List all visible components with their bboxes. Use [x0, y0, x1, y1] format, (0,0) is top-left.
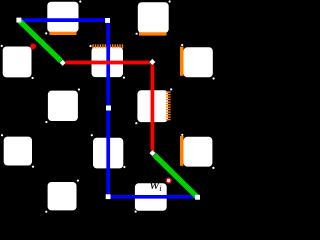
port dot S1 BL — [45, 32, 47, 34]
port dot S12 BL — [45, 211, 47, 213]
port dot S11 BR — [212, 167, 214, 169]
port dot S2 TR — [169, 0, 171, 2]
blue wire path: node A top-left, right, down, right to node E — [19, 20, 198, 197]
port dot S9 TL — [91, 134, 93, 136]
red wire path: diamond D1 to diamond D2 to diamond D3 — [63, 63, 152, 153]
port dot S7 BL — [135, 122, 137, 124]
square S7 (row3, col3) — [137, 90, 168, 122]
square S12 (bottom, col1) — [48, 182, 77, 210]
diamond D3 — [149, 150, 156, 157]
orange bar left of S11 — [180, 136, 184, 166]
green wire 2: diamond D3 to node E — [153, 154, 197, 197]
node E (square, blue/green end) — [195, 195, 200, 200]
port dot S11 TL — [181, 134, 183, 136]
green wire 1: node A to diamond D1 — [20, 21, 63, 63]
port dot S7 TR — [170, 88, 172, 90]
diamond D1 — [59, 59, 66, 66]
port dot S3 TL — [181, 44, 183, 46]
square S13 (bottom, col3, w_i) — [135, 183, 167, 211]
diamond D2 — [149, 59, 156, 66]
port dot S2 BL — [136, 33, 138, 35]
port dot S13 BL — [135, 211, 137, 213]
node D (square, blue bend bottom) — [106, 194, 111, 199]
orange bar bottom of S1 — [49, 32, 76, 35]
square S5 (row2, col0) — [3, 47, 32, 78]
port dot S10 BR — [32, 166, 34, 168]
port dot S6 BL — [45, 121, 47, 123]
square S4 (row2, col2, center) — [92, 47, 124, 77]
port dot S5 TL — [1, 45, 3, 47]
square S6 (row3, col1) — [48, 91, 78, 121]
port dot S9 BR — [123, 166, 125, 168]
square S9 (row4, col2) — [93, 138, 123, 169]
port dot S6 TR — [78, 88, 80, 90]
node A (square, blue/green start) — [16, 18, 21, 23]
red dot (filled) near S5 top-right — [30, 44, 36, 50]
port dot S4 BR — [123, 77, 125, 79]
square S2 (top, col3) — [138, 2, 169, 33]
square S11 (row4, col4) — [184, 137, 213, 167]
node C (square, blue mid vertex) — [106, 106, 111, 111]
orange bar left of S3 — [180, 47, 184, 76]
orange comb right of S7 — [166, 92, 171, 120]
orange comb top of S4 — [93, 44, 122, 48]
orange bar bottom of S2 — [139, 32, 167, 35]
port dot S1 TR — [79, 0, 81, 2]
square S1 (top, col1) — [47, 2, 78, 33]
node B (square, blue bend top) — [105, 18, 110, 23]
square S3 (row2, col4) — [184, 47, 213, 77]
square S10 (row4, col0) — [4, 137, 32, 166]
port dot S5 BR — [31, 77, 33, 79]
port dot S4 TL — [89, 45, 91, 47]
red ring dot near S13 top-right — [166, 178, 171, 183]
port dot S10 TL — [1, 134, 3, 136]
port dot S12 TR — [77, 180, 79, 182]
port dot S3 BR — [213, 77, 215, 79]
